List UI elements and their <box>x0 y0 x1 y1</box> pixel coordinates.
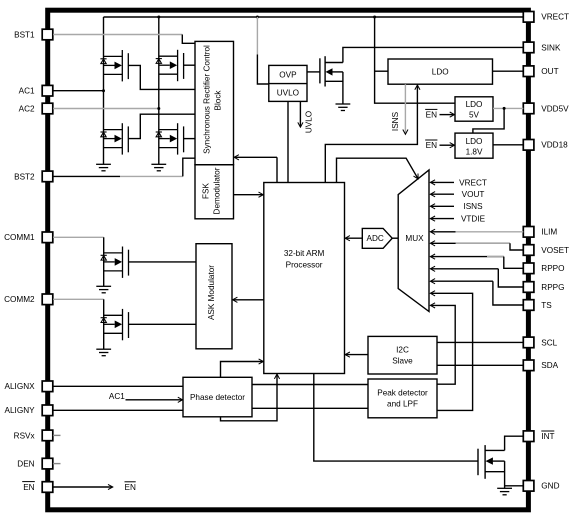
pin OUT <box>523 66 534 77</box>
wire VDD5V to LDO18 supply <box>473 108 504 133</box>
svg-text:VOSET: VOSET <box>541 246 569 255</box>
pin RPPO <box>523 263 534 274</box>
pin ALIGNX <box>42 381 53 392</box>
block U10 ADC <box>362 228 392 248</box>
wire peak detector output2 to MUX <box>431 293 473 410</box>
svg-text:UVLO: UVLO <box>277 89 299 98</box>
wire phase detector out2 to peak detector <box>252 407 368 409</box>
svg-text:ADC: ADC <box>367 234 384 243</box>
node AC1 junction <box>102 89 105 92</box>
wire MUX output to ADC <box>392 237 398 239</box>
wire peak detector output1 to MUX <box>431 305 456 384</box>
svg-text:GND: GND <box>541 482 559 491</box>
pin SDA <box>523 360 534 371</box>
wire VOSET to MUX <box>431 242 510 244</box>
svg-text:EN: EN <box>426 141 437 150</box>
node VDD5V junction <box>503 107 506 110</box>
wire I2C to ARM <box>345 354 368 356</box>
wire ARM top to LDO bottom feedback <box>325 85 417 182</box>
pin DEN <box>42 458 53 469</box>
wire MUX stub VTDIE <box>431 218 454 220</box>
svg-text:LDO: LDO <box>466 137 483 146</box>
wire RPPG to MUX <box>431 268 499 270</box>
svg-text:DEN: DEN <box>17 460 34 469</box>
svg-text:ISNS: ISNS <box>463 202 483 211</box>
transistor Q8 INT driver <box>478 445 505 479</box>
svg-text:32-bit ARM: 32-bit ARM <box>284 249 325 258</box>
svg-text:Block: Block <box>213 90 222 111</box>
block U12 peak detector <box>368 379 437 418</box>
wire TS to MUX <box>431 280 493 282</box>
svg-text:BST1: BST1 <box>14 30 35 39</box>
pin ALIGNY <box>42 405 53 416</box>
svg-text:OVP: OVP <box>279 71 297 80</box>
svg-text:EN: EN <box>125 483 136 492</box>
wire ARM to ASK modulator <box>233 299 264 301</box>
svg-text:UVLO: UVLO <box>305 111 314 133</box>
pin VOSET <box>523 245 534 256</box>
svg-text:VDD18: VDD18 <box>541 141 568 150</box>
svg-text:VDD5V: VDD5V <box>541 104 569 113</box>
wire ALIGNY to phase detector <box>53 409 183 411</box>
svg-text:VRECT: VRECT <box>541 13 569 22</box>
svg-text:ALIGNY: ALIGNY <box>5 406 36 415</box>
wire ALIGNX to phase detector <box>53 385 183 387</box>
svg-text:I2C: I2C <box>396 346 409 355</box>
transistor Q1 high-side left <box>100 50 128 81</box>
wire UVLO signal arrow <box>299 101 301 127</box>
ground Q5 source <box>96 286 111 293</box>
wire FSK output to ARM <box>234 194 264 196</box>
wire EN internal arrow <box>53 486 112 488</box>
wire VRECT top rail <box>104 16 524 18</box>
transistor Q7 SINK <box>320 56 343 86</box>
pin COMM1 <box>42 232 53 243</box>
wire EN to LDO5V <box>440 114 455 116</box>
wire OVP output to Q7 gate <box>307 71 320 73</box>
svg-text:COMM1: COMM1 <box>4 233 35 242</box>
wire SDA <box>437 364 523 366</box>
transistor Q5 COMM1 <box>101 247 129 278</box>
transistor Q2 high-side right <box>156 50 184 81</box>
wire BST2 to SRC block <box>53 175 120 177</box>
wire COMM2 to Q6 <box>53 298 104 300</box>
svg-text:RSVx: RSVx <box>14 431 35 440</box>
block U5 LDO <box>388 59 493 84</box>
block U13 phase detector <box>183 377 252 417</box>
svg-text:ALIGNX: ALIGNX <box>5 382 36 391</box>
ground Q7 <box>336 104 351 111</box>
transistor Q4 low-side right <box>156 123 184 154</box>
svg-text:AC1: AC1 <box>19 87 35 96</box>
wire MUX stub VRECT <box>431 181 454 183</box>
svg-text:VOUT: VOUT <box>462 190 485 199</box>
pin BST1 <box>42 29 53 40</box>
svg-text:ILIM: ILIM <box>541 228 557 237</box>
wire SCL <box>437 341 523 343</box>
wire Q1 gate to SRC block <box>128 65 195 89</box>
wire Q3 gate to SRC block <box>128 114 195 138</box>
block U6 LDO 5V <box>455 97 493 121</box>
node junction LDO-drop <box>373 16 376 19</box>
transistor Q3 low-side left <box>100 123 128 154</box>
wire Q7 drain to SINK pin <box>343 47 523 62</box>
wire Q5 gate to ASK modulator <box>129 261 197 263</box>
wire BST1 to SRC block <box>53 34 182 36</box>
svg-text:MUX: MUX <box>405 234 424 243</box>
block U1 Synchronous Rectifier Control <box>195 41 234 164</box>
wire ADC output to ARM <box>345 237 362 239</box>
svg-text:Slave: Slave <box>392 357 413 366</box>
ground rectifier leg1 <box>96 164 111 171</box>
pin VDD18 <box>523 140 534 151</box>
wire LDO18 output to VDD18 pin <box>493 144 523 146</box>
svg-text:Demodulator: Demodulator <box>212 167 221 214</box>
wire LDO5V output to VDD5V pin <box>493 107 523 109</box>
wire UVLO to ARM top <box>287 101 289 182</box>
block U3 ASK Modulator <box>196 244 232 349</box>
svg-text:RPPG: RPPG <box>541 283 564 292</box>
pin AC1 <box>42 85 53 96</box>
wire DEN stub <box>53 463 61 465</box>
svg-text:LDO: LDO <box>466 100 483 109</box>
wire ARM bottom to Q8 gate <box>314 374 478 462</box>
pin VRECT <box>523 12 534 23</box>
wire Q6 drain rail <box>103 299 105 349</box>
block U11 I2C slave <box>368 336 437 374</box>
wire RSVx stub <box>53 434 61 436</box>
wire ARM to SRC block arrow <box>276 157 278 182</box>
wire RPPO to MUX <box>431 256 504 258</box>
node AC2 junction <box>157 107 160 110</box>
pin RPPG <box>523 282 534 293</box>
node junction OVP-drop <box>256 16 259 19</box>
wire Q4 gate to SRC block <box>184 138 195 140</box>
svg-text:COMM2: COMM2 <box>4 295 35 304</box>
svg-text:EN: EN <box>23 483 34 492</box>
wire Q6 gate to ASK modulator <box>129 323 197 325</box>
ground Q6 source <box>96 349 111 356</box>
block U4 OVP UVLO <box>269 65 307 101</box>
wire Q5 drain rail <box>103 237 105 286</box>
wire VRECT to OVP input <box>256 17 258 55</box>
pin RSVx <box>42 430 53 441</box>
wire AC1 to rail1 <box>53 90 103 92</box>
wire EN to LDO18 <box>440 144 455 146</box>
wire Q8 drain to INT pin <box>505 436 524 450</box>
svg-text:BST2: BST2 <box>14 172 35 181</box>
svg-text:AC1: AC1 <box>109 392 125 401</box>
ground rectifier leg2 <box>151 164 166 171</box>
block U9 MUX <box>398 170 429 312</box>
svg-text:OUT: OUT <box>541 67 558 76</box>
ground Q8 <box>497 488 512 495</box>
block U2 FSK Demodulator <box>195 165 234 219</box>
wire Q7 source to ground <box>342 72 344 104</box>
wire VRECT supply drop to LDO and LDO5V <box>375 17 455 103</box>
svg-text:1.8V: 1.8V <box>466 147 483 156</box>
pin BST2 <box>42 171 53 182</box>
pin GND <box>523 481 534 492</box>
block U7 LDO 1.8V <box>455 133 493 158</box>
svg-text:Phase detector: Phase detector <box>190 393 245 402</box>
svg-text:SINK: SINK <box>541 43 561 52</box>
svg-text:EN: EN <box>426 111 437 120</box>
wire ILIM to MUX <box>431 231 456 233</box>
pin SINK <box>523 42 534 53</box>
svg-text:5V: 5V <box>469 111 480 120</box>
svg-text:Synchronous Rectifier Control: Synchronous Rectifier Control <box>203 45 212 154</box>
svg-text:LDO: LDO <box>432 68 449 77</box>
svg-text:Peak detector: Peak detector <box>377 389 428 398</box>
wire ARM top to MUX select <box>337 158 419 182</box>
svg-text:AC2: AC2 <box>19 104 35 113</box>
svg-text:RPPO: RPPO <box>541 264 564 273</box>
wire AC2 to rail2 <box>53 108 159 110</box>
pin TS <box>523 300 534 311</box>
svg-text:FSK: FSK <box>202 183 211 199</box>
svg-text:VRECT: VRECT <box>459 178 487 187</box>
svg-text:INT: INT <box>541 432 554 441</box>
transistor Q6 COMM2 <box>101 309 129 340</box>
pin COMM2 <box>42 294 53 305</box>
pin AC2 <box>42 103 53 114</box>
wire MUX stub ISNS <box>431 205 454 207</box>
wire Q8 source to GND pin <box>504 461 506 488</box>
wire phase detector top to ARM <box>221 362 264 378</box>
svg-text:ISNS: ISNS <box>391 111 400 131</box>
svg-text:and LPF: and LPF <box>387 400 418 409</box>
wire phase detector out1 to peak detector <box>252 384 368 386</box>
wire rectifier rail 1 <box>103 17 105 164</box>
svg-text:VTDIE: VTDIE <box>461 215 486 224</box>
wire MUX stub VOUT <box>431 193 454 195</box>
pin EN <box>42 482 53 493</box>
wire LDO output to OUT pin <box>493 70 524 72</box>
pin INT <box>523 431 534 442</box>
svg-text:TS: TS <box>541 301 552 310</box>
svg-text:Processor: Processor <box>286 260 323 269</box>
svg-text:SCL: SCL <box>541 338 557 347</box>
pin SCL <box>523 337 534 348</box>
wire phase detector bottom to ARM <box>221 374 278 420</box>
svg-text:ASK Modulator: ASK Modulator <box>207 265 216 320</box>
block U8 ARM processor <box>264 183 345 374</box>
wire AC1 to phase detector <box>126 399 183 401</box>
wire Q2 gate to SRC block <box>184 64 195 66</box>
svg-text:SDA: SDA <box>541 361 558 370</box>
node junction rail2-top <box>157 16 160 19</box>
pin VDD5V <box>523 103 534 114</box>
pin ILIM <box>523 227 534 238</box>
wire ISNS sense arrow <box>404 84 406 134</box>
wire COMM1 to Q5 <box>53 236 104 238</box>
wire rectifier rail 2 <box>158 17 160 164</box>
